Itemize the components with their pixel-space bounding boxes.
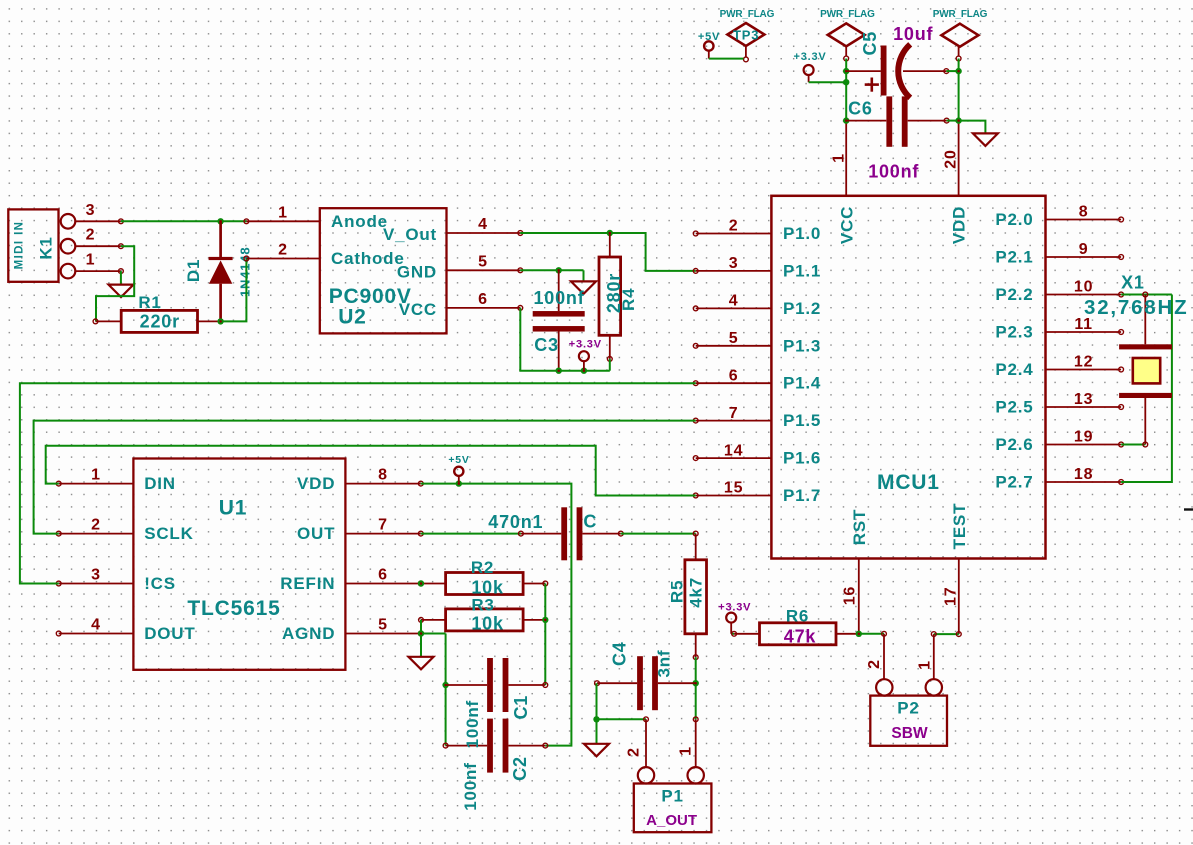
svg-text:6: 6 [478, 291, 488, 308]
svg-text:P1.5: P1.5 [783, 411, 821, 430]
svg-text:TP3: TP3 [733, 28, 759, 43]
svg-text:2: 2 [626, 747, 643, 757]
svg-text:3nf: 3nf [655, 650, 674, 678]
svg-text:220r: 220r [140, 312, 180, 332]
svg-text:16: 16 [842, 586, 859, 605]
svg-text:RST: RST [850, 509, 869, 545]
svg-text:C2: C2 [510, 756, 530, 781]
svg-text:2: 2 [866, 659, 883, 669]
svg-text:AGND: AGND [282, 624, 335, 643]
svg-text:6: 6 [729, 367, 739, 384]
svg-text:18: 18 [1074, 466, 1093, 483]
svg-text:470n1: 470n1 [488, 512, 543, 532]
svg-text:1: 1 [91, 467, 101, 484]
svg-text:P1.2: P1.2 [783, 299, 821, 318]
svg-text:R4: R4 [619, 288, 638, 311]
svg-text:P1.3: P1.3 [783, 336, 821, 355]
svg-text:15: 15 [724, 480, 743, 497]
svg-text:4: 4 [91, 617, 101, 634]
svg-text:3: 3 [86, 202, 96, 219]
svg-text:GND: GND [397, 262, 437, 281]
svg-text:1N4148: 1N4148 [238, 247, 253, 297]
svg-text:8: 8 [1079, 204, 1089, 221]
svg-text:REFIN: REFIN [280, 574, 335, 593]
svg-text:A_OUT: A_OUT [646, 812, 697, 829]
svg-text:D1: D1 [184, 259, 203, 282]
svg-text:VDD: VDD [297, 474, 335, 493]
svg-text:3: 3 [91, 567, 101, 584]
svg-text:MIDI IN: MIDI IN [14, 221, 26, 270]
svg-text:P2.1: P2.1 [995, 248, 1033, 267]
svg-text:X1: X1 [1121, 273, 1145, 293]
svg-text:P1.7: P1.7 [783, 486, 821, 505]
svg-text:14: 14 [724, 442, 743, 459]
svg-text:10: 10 [1074, 279, 1093, 296]
svg-text:10k: 10k [471, 578, 504, 598]
svg-text:TEST: TEST [950, 503, 969, 550]
svg-text:R6: R6 [786, 607, 809, 626]
svg-text:4: 4 [478, 216, 488, 233]
svg-text:DOUT: DOUT [144, 624, 195, 643]
svg-text:P1: P1 [661, 787, 683, 806]
svg-text:C4: C4 [610, 641, 630, 666]
svg-text:C5: C5 [860, 31, 880, 56]
svg-text:P2.5: P2.5 [995, 398, 1033, 417]
svg-text:8: 8 [378, 467, 388, 484]
svg-text:C6: C6 [848, 99, 873, 119]
svg-text:PWR_FLAG: PWR_FLAG [933, 9, 988, 20]
svg-text:C1: C1 [511, 695, 531, 720]
svg-text:PWR_FLAG: PWR_FLAG [720, 9, 775, 20]
svg-text:Cathode: Cathode [331, 249, 405, 268]
svg-text:SBW: SBW [891, 725, 928, 742]
svg-text:5: 5 [729, 330, 739, 347]
svg-text:+5V: +5V [448, 454, 469, 466]
svg-text:R1: R1 [138, 293, 161, 312]
svg-text:P2.2: P2.2 [995, 285, 1033, 304]
svg-text:P2.6: P2.6 [995, 435, 1033, 454]
svg-text:7: 7 [729, 405, 739, 422]
svg-text:R5: R5 [667, 580, 686, 603]
svg-text:100nf: 100nf [868, 162, 919, 182]
svg-text:DIN: DIN [144, 474, 176, 493]
svg-text:SCLK: SCLK [144, 524, 193, 543]
svg-text:K1: K1 [37, 236, 56, 259]
svg-text:Anode: Anode [331, 212, 388, 231]
svg-text:1: 1 [278, 204, 288, 221]
svg-text:R3: R3 [471, 596, 494, 615]
svg-text:P1.1: P1.1 [783, 261, 821, 280]
svg-text:VDD: VDD [950, 206, 969, 244]
svg-text:TLC5615: TLC5615 [187, 597, 280, 620]
svg-text:P2.3: P2.3 [995, 323, 1033, 342]
svg-text:+3.3V: +3.3V [569, 339, 602, 351]
svg-text:1: 1 [831, 153, 848, 163]
svg-text:5: 5 [478, 253, 488, 270]
svg-text:47k: 47k [784, 627, 817, 647]
svg-text:P2.0: P2.0 [995, 210, 1033, 229]
svg-text:P2.4: P2.4 [995, 360, 1033, 379]
svg-text:U1: U1 [219, 497, 247, 520]
svg-text:32,768HZ: 32,768HZ [1084, 296, 1188, 319]
svg-text:!CS: !CS [144, 574, 176, 593]
svg-text:13: 13 [1074, 391, 1093, 408]
svg-text:+3.3V: +3.3V [718, 601, 751, 613]
svg-text:2: 2 [729, 218, 739, 235]
svg-text:17: 17 [943, 587, 960, 606]
svg-text:4k7: 4k7 [687, 577, 706, 608]
svg-text:+3.3V: +3.3V [793, 51, 826, 63]
svg-text:2: 2 [91, 517, 101, 534]
svg-text:19: 19 [1074, 429, 1093, 446]
svg-text:OUT: OUT [297, 524, 335, 543]
svg-text:P1.0: P1.0 [783, 224, 821, 243]
svg-text:V_Out: V_Out [383, 225, 437, 244]
svg-text:5: 5 [378, 617, 388, 634]
svg-text:2: 2 [86, 227, 96, 244]
svg-text:100nf: 100nf [534, 288, 585, 308]
svg-text:3: 3 [729, 255, 739, 272]
svg-text:R2: R2 [471, 558, 494, 577]
svg-text:U2: U2 [338, 306, 366, 329]
svg-text:C: C [583, 512, 597, 532]
svg-text:6: 6 [378, 567, 388, 584]
svg-text:P2: P2 [897, 699, 919, 718]
svg-text:P2.7: P2.7 [995, 473, 1033, 492]
svg-text:10k: 10k [471, 614, 504, 634]
svg-text:20: 20 [943, 149, 960, 168]
svg-text:9: 9 [1079, 241, 1089, 258]
svg-text:VCC: VCC [837, 206, 856, 244]
svg-text:7: 7 [378, 517, 388, 534]
svg-text:1: 1 [917, 660, 934, 670]
svg-text:100nf: 100nf [461, 762, 480, 810]
svg-text:P1.6: P1.6 [783, 449, 821, 468]
svg-text:PWR_FLAG: PWR_FLAG [820, 9, 875, 20]
svg-text:2: 2 [278, 242, 288, 259]
svg-text:100nf: 100nf [463, 700, 482, 748]
svg-text:1: 1 [86, 252, 96, 269]
svg-text:MCU1: MCU1 [877, 471, 940, 494]
svg-text:C3: C3 [534, 335, 559, 355]
svg-text:10uf: 10uf [893, 24, 933, 44]
svg-text:P1.4: P1.4 [783, 374, 821, 393]
svg-text:12: 12 [1074, 354, 1093, 371]
svg-text:4: 4 [729, 293, 739, 310]
svg-text:1: 1 [678, 746, 695, 756]
